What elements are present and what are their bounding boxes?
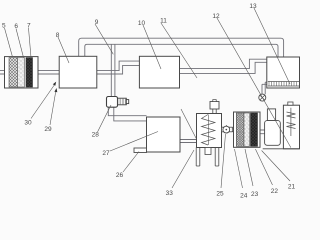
svg-text:11: 11 [160, 17, 167, 24]
leader 23 [245, 149, 253, 186]
svg-text:30: 30 [24, 119, 32, 126]
svg-text:25: 25 [216, 190, 224, 197]
layer 22 (dark) [251, 113, 258, 146]
base line under tank and stirrer box [263, 148, 300, 150]
leader 22 [255, 149, 272, 185]
leader 30 with arrow [31, 84, 55, 119]
leader 12 [217, 18, 291, 148]
screw inside vessel 33 [202, 115, 216, 146]
svg-text:23: 23 [251, 191, 259, 198]
svg-text:5: 5 [2, 22, 6, 29]
svg-text:6: 6 [14, 23, 18, 30]
wire: pipe left filter to box 8 [38, 71, 59, 74]
wire: top gas pipe from box 8 top over to box 13 top [79, 38, 284, 57]
vessel 33 (crystallizer with screw) [196, 100, 221, 166]
leader 24 [235, 149, 243, 188]
svg-text:10: 10 [138, 20, 146, 27]
pump 28 (motor with cylinder) [107, 97, 129, 108]
grate strip inside box 13 [268, 82, 299, 87]
svg-text:12: 12 [212, 13, 220, 20]
wire: feed pipe into left filter [0, 71, 5, 74]
leader 8 [58, 37, 69, 63]
svg-text:7: 7 [27, 22, 31, 29]
leader 11 lower segment [181, 109, 197, 139]
wire: pipe pump 28 down and right into box 27 [108, 107, 146, 121]
leader 26 [123, 152, 139, 173]
svg-text:24: 24 [240, 192, 248, 199]
svg-text:22: 22 [271, 188, 279, 195]
right stirrer box (item 21) [263, 102, 300, 149]
fitting 26 [134, 148, 147, 153]
wire: pipe box 10 right with step up into box 13 left [180, 59, 267, 73]
leader 28 [98, 105, 112, 132]
wire: pipe box 27 right to vessel 33 [180, 140, 197, 143]
leader 6 [16, 29, 24, 58]
fan 12 (circle with X) [259, 94, 266, 101]
vessel bottom outlet [205, 148, 211, 155]
layer 23 (dots) [244, 113, 250, 146]
filter unit left (items 5,6,7) [5, 57, 39, 88]
motor on vessel 33 [210, 102, 219, 110]
leader 5 [5, 28, 13, 57]
leader 11 [161, 23, 197, 78]
svg-text:27: 27 [102, 150, 110, 157]
adsorption layer 7 (dark) [26, 58, 33, 87]
svg-text:9: 9 [95, 19, 99, 26]
leader 7 [29, 28, 32, 58]
wire: pipe right filter to tank [260, 130, 265, 134]
filter unit right (items 22,23,24) [234, 112, 261, 147]
box 13 (condenser) [267, 57, 300, 88]
svg-text:21: 21 [288, 183, 296, 190]
wire: riser pipe from top pipe down to pump 28 [111, 44, 115, 96]
svg-text:28: 28 [92, 132, 100, 139]
leader 21 [262, 151, 290, 182]
leader 9 [95, 24, 113, 54]
vessel legs [196, 148, 219, 167]
box 8 [59, 56, 97, 88]
adsorption layer 5 (mesh) [9, 58, 18, 87]
wire: pipe vessel 33 through pump 25 to right filter [222, 128, 234, 132]
leader 25 [221, 134, 226, 188]
box 10 [139, 56, 179, 88]
adsorption layer 6 (dots) [18, 58, 25, 87]
leader 29 with arrow [50, 90, 56, 125]
svg-text:8: 8 [56, 32, 60, 39]
box 27 [147, 117, 181, 152]
svg-text:29: 29 [44, 126, 52, 133]
leader 27 [110, 132, 158, 152]
wire: pipe box 8 right to elbow up into box 10 [97, 61, 140, 74]
svg-text:13: 13 [249, 3, 257, 10]
svg-text:33: 33 [166, 190, 174, 197]
layer 24 (diagonal hatch) [236, 113, 244, 146]
svg-text:26: 26 [116, 172, 124, 179]
leader 10 [143, 25, 161, 69]
leader 13 [254, 8, 290, 84]
pump 25 (circle with flanges) [222, 125, 233, 133]
wire: drain stub from box 13 down to fan 12 [262, 82, 267, 94]
leader 33 [172, 150, 194, 188]
tank with cap (item 22 area) [265, 109, 281, 145]
